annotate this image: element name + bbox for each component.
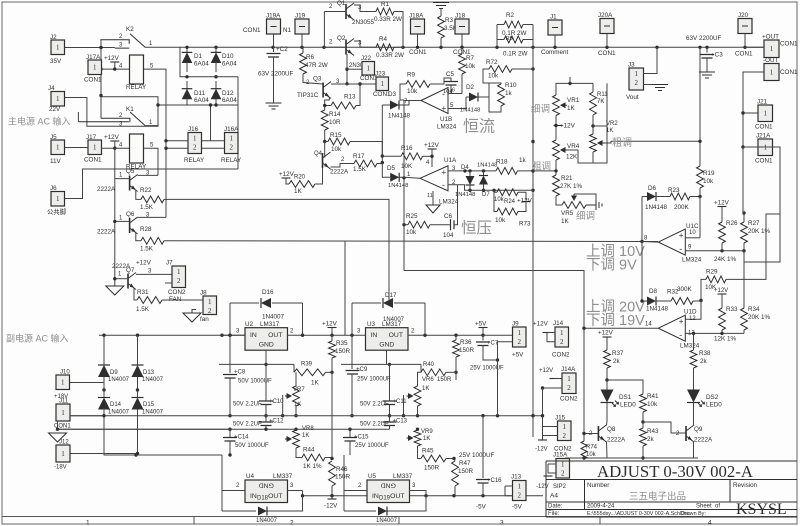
svg-text:R10: R10 bbox=[505, 82, 517, 89]
svg-text:TIP31C: TIP31C bbox=[297, 92, 319, 99]
svg-text:R13: R13 bbox=[344, 94, 356, 101]
wire J21 bbox=[743, 112, 758, 114]
LED DS2 bbox=[687, 390, 700, 403]
wire R41 to Q9 base bbox=[643, 422, 686, 433]
ground R3 top bbox=[433, 3, 449, 9]
svg-text:恒流: 恒流 bbox=[463, 118, 495, 136]
svg-text:Drawn By:: Drawn By: bbox=[681, 511, 706, 517]
svg-text:1N4148: 1N4148 bbox=[388, 183, 408, 189]
wire x534 bottom bbox=[532, 436, 534, 438]
svg-text:DS2: DS2 bbox=[706, 394, 719, 401]
svg-text:1: 1 bbox=[56, 195, 60, 203]
wire u5 in rail bbox=[343, 455, 345, 491]
svg-text:+C16: +C16 bbox=[487, 478, 502, 484]
svg-text:R43: R43 bbox=[647, 428, 659, 435]
svg-text:J13: J13 bbox=[511, 474, 522, 481]
wire R36 bbox=[455, 335, 457, 340]
capacitor C8 bbox=[229, 335, 231, 373]
wire rail to aux bridge bbox=[103, 408, 105, 416]
svg-text:2: 2 bbox=[230, 143, 234, 151]
wires R2 R5 parallel bbox=[497, 24, 504, 26]
svg-text:R17: R17 bbox=[353, 153, 365, 160]
svg-text:+: + bbox=[679, 231, 684, 240]
svg-text:1: 1 bbox=[93, 144, 97, 152]
long wire constant-voltage feedback bbox=[164, 199, 389, 303]
svg-text:2: 2 bbox=[518, 491, 522, 499]
wire relay2 coil pin4 bbox=[101, 147, 130, 149]
svg-text:三五电子出品: 三五电子出品 bbox=[629, 491, 686, 503]
svg-text:150R: 150R bbox=[335, 474, 351, 481]
wire -OUT bbox=[743, 72, 764, 148]
svg-text:R9: R9 bbox=[407, 72, 416, 79]
wire Q3 emitter bbox=[325, 97, 330, 110]
svg-text:R35: R35 bbox=[336, 340, 348, 347]
wire R41 bottom bbox=[642, 412, 644, 422]
wire R25 left bbox=[404, 224, 408, 226]
svg-text:LM317: LM317 bbox=[260, 321, 280, 328]
svg-text:E:\555dsy...\ADJUST 0-30V 002-: E:\555dsy...\ADJUST 0-30V 002-A.SchDoc bbox=[587, 511, 690, 517]
svg-text:1: 1 bbox=[93, 64, 97, 72]
svg-text:OUT: OUT bbox=[268, 332, 282, 339]
svg-text:2222A: 2222A bbox=[330, 169, 349, 176]
relay RELAY1 coil bbox=[130, 55, 144, 84]
resistor R31 bbox=[134, 288, 137, 301]
wire U3 gnd bbox=[386, 350, 388, 364]
svg-text:2k: 2k bbox=[647, 436, 655, 443]
svg-text:IN: IN bbox=[372, 493, 379, 500]
svg-text:+12V: +12V bbox=[714, 288, 728, 294]
aux bridge bottom wires bbox=[104, 416, 136, 455]
wire R23 right bbox=[690, 196, 700, 198]
svg-text:RELAY: RELAY bbox=[126, 84, 147, 91]
svg-text:+C10: +C10 bbox=[269, 399, 284, 405]
svg-text:Sheet of: Sheet of bbox=[696, 504, 720, 510]
resistor R74 bbox=[583, 434, 585, 442]
svg-text:GND: GND bbox=[259, 342, 274, 349]
svg-text:D8: D8 bbox=[649, 288, 658, 295]
wire R13 ends bbox=[325, 105, 331, 107]
svg-text:R72: R72 bbox=[486, 59, 498, 66]
svg-text:Q5: Q5 bbox=[126, 168, 135, 175]
svg-text:D7: D7 bbox=[482, 192, 490, 198]
wire R33 bottom bbox=[721, 330, 723, 333]
svg-text:Comment: Comment bbox=[541, 49, 569, 56]
rail gnd aux bbox=[58, 428, 390, 430]
ground C2 bbox=[266, 103, 282, 109]
capacitor C15 bbox=[343, 438, 357, 442]
wire U1A output bbox=[404, 177, 420, 178]
svg-text:35V: 35V bbox=[50, 58, 62, 65]
wire D6 anode bbox=[641, 197, 643, 242]
svg-text:R31: R31 bbox=[137, 289, 149, 296]
svg-text:R38: R38 bbox=[699, 350, 711, 357]
wires J16 pins bbox=[166, 140, 188, 142]
wire J7 pin2 bbox=[165, 282, 172, 284]
LED DS1 bbox=[601, 390, 614, 403]
svg-text:VR2: VR2 bbox=[606, 121, 618, 127]
wire R31 to J8 bbox=[162, 299, 203, 301]
wire R9 left feedback bbox=[400, 84, 406, 100]
svg-text:2: 2 bbox=[177, 277, 181, 285]
wire R32 right bbox=[693, 300, 701, 302]
svg-text:150R: 150R bbox=[459, 347, 475, 354]
svg-text:D14: D14 bbox=[110, 402, 122, 408]
svg-text:27K 1%: 27K 1% bbox=[560, 183, 582, 190]
svg-text:R21: R21 bbox=[561, 175, 573, 182]
potentiometer VR7 bbox=[295, 372, 297, 386]
wire VR9 to R45 bbox=[418, 446, 422, 459]
svg-text:粗调: 粗调 bbox=[612, 137, 632, 149]
svg-text:LM324: LM324 bbox=[437, 124, 457, 131]
svg-text:-12V: -12V bbox=[536, 484, 549, 490]
wire R4 right bbox=[394, 46, 403, 48]
wires C5 bbox=[430, 78, 451, 84]
svg-text:10k: 10k bbox=[407, 88, 418, 95]
wire Q5 collector to relay bbox=[138, 174, 158, 176]
ground VR5 bbox=[586, 200, 602, 210]
diode D9 bbox=[103, 335, 105, 365]
svg-text:+C3: +C3 bbox=[711, 52, 723, 59]
svg-text:1K: 1K bbox=[423, 436, 430, 442]
svg-text:2N3055: 2N3055 bbox=[352, 19, 375, 26]
resistor R7 bbox=[461, 47, 463, 54]
wire J20A stub bbox=[606, 34, 608, 48]
svg-text:R15: R15 bbox=[330, 132, 342, 139]
ground J3 bbox=[652, 85, 668, 91]
svg-text:ADJUST 0-30V 002-A: ADJUST 0-30V 002-A bbox=[597, 462, 753, 481]
svg-text:+12V: +12V bbox=[424, 142, 440, 149]
svg-text:12K: 12K bbox=[566, 154, 578, 161]
wire R16 ends bbox=[382, 155, 401, 157]
wire Q7 collector to J7 bbox=[136, 273, 172, 275]
svg-text:6A04: 6A04 bbox=[222, 61, 237, 68]
svg-text:2: 2 bbox=[561, 469, 565, 477]
svg-text:20K 1%: 20K 1% bbox=[748, 228, 770, 235]
svg-text:CON2: CON2 bbox=[552, 352, 570, 359]
wire VR4 wiper bbox=[567, 150, 593, 163]
svg-text:2: 2 bbox=[193, 143, 197, 151]
svg-text:1K: 1K bbox=[294, 402, 301, 408]
svg-text:1N4007: 1N4007 bbox=[256, 518, 278, 524]
svg-text:CON1: CON1 bbox=[409, 49, 427, 56]
wire J4 routing loop bbox=[65, 97, 159, 127]
svg-text:LM324: LM324 bbox=[439, 199, 459, 206]
wire feed U3 in bbox=[344, 242, 346, 336]
wire R26 bottom bbox=[721, 243, 723, 251]
wires R29 bbox=[701, 279, 706, 300]
wire U1D output bbox=[584, 327, 658, 329]
wire Q1 base rail bbox=[324, 11, 346, 13]
wire Q2 emitter rail bbox=[346, 54, 348, 84]
wire R44 right bbox=[325, 457, 332, 459]
svg-text:2222A: 2222A bbox=[694, 437, 713, 444]
svg-text:1.5K: 1.5K bbox=[140, 204, 154, 211]
svg-text:-: - bbox=[679, 330, 682, 340]
ground J11 bbox=[57, 421, 59, 429]
svg-text:150R: 150R bbox=[437, 377, 452, 383]
rail minus5 bottom bbox=[303, 495, 544, 497]
emitter ground rail bbox=[565, 457, 698, 459]
wire U1B pin5 bbox=[448, 97, 466, 109]
svg-text:U1D: U1D bbox=[684, 309, 697, 316]
svg-text:12K 1%: 12K 1% bbox=[714, 336, 736, 343]
svg-text:Q2: Q2 bbox=[337, 35, 346, 42]
svg-text:R40: R40 bbox=[423, 362, 435, 368]
wire R19 column bbox=[699, 47, 701, 166]
svg-text:1N4007: 1N4007 bbox=[383, 317, 405, 323]
wire J11 ground rail bbox=[58, 428, 231, 430]
potentiometer VR8 bbox=[295, 428, 297, 431]
potentiometer VR9 bbox=[417, 428, 419, 431]
svg-text:R73: R73 bbox=[519, 221, 531, 228]
svg-text:2: 2 bbox=[560, 338, 564, 346]
wires R27 bbox=[743, 213, 745, 222]
svg-text:VR5: VR5 bbox=[561, 210, 574, 217]
svg-text:1N4148: 1N4148 bbox=[645, 204, 668, 211]
svg-text:J14A: J14A bbox=[561, 366, 576, 373]
svg-text:6A04: 6A04 bbox=[222, 97, 237, 104]
svg-text:2k: 2k bbox=[613, 358, 621, 365]
wire J1 stub bbox=[554, 35, 556, 47]
wire VR6 bottom bbox=[417, 406, 419, 416]
ground flag J8 bbox=[192, 310, 196, 314]
wires D17 loop bbox=[351, 303, 353, 335]
svg-text:R3: R3 bbox=[445, 17, 454, 24]
wire J18 stub bbox=[461, 34, 463, 47]
svg-text:4: 4 bbox=[708, 520, 712, 526]
svg-text:LM337: LM337 bbox=[393, 473, 413, 480]
svg-text:1K: 1K bbox=[422, 386, 429, 392]
svg-text:下调 19V: 下调 19V bbox=[586, 312, 645, 329]
vertical R36-R45 net bbox=[455, 372, 457, 380]
svg-text:1N4007: 1N4007 bbox=[142, 410, 164, 416]
svg-text:R37: R37 bbox=[612, 350, 624, 357]
VR1 top rail bbox=[556, 83, 593, 95]
svg-text:2: 2 bbox=[567, 384, 571, 392]
wire J11 rail bbox=[70, 415, 104, 417]
wire Q8 base bbox=[584, 433, 598, 435]
capacitor C16 bbox=[482, 416, 484, 478]
svg-text:63V 2200UF: 63V 2200UF bbox=[686, 35, 722, 42]
wire J20 stub bbox=[744, 34, 746, 48]
svg-text:DS1: DS1 bbox=[619, 394, 632, 401]
svg-text:6A04: 6A04 bbox=[194, 97, 209, 104]
svg-text:10R: 10R bbox=[329, 119, 341, 126]
svg-text:D18: D18 bbox=[257, 496, 269, 502]
wire U1B pin6 bbox=[448, 93, 462, 95]
wire R43 bbox=[642, 422, 644, 428]
svg-text:+C11: +C11 bbox=[393, 399, 408, 405]
wire Q6 collector bbox=[138, 216, 166, 218]
svg-text:1N4007: 1N4007 bbox=[108, 377, 130, 383]
svg-text:R47: R47 bbox=[459, 460, 471, 467]
svg-text:1N4148: 1N4148 bbox=[455, 192, 475, 198]
svg-text:1K: 1K bbox=[311, 380, 320, 387]
svg-text:R16: R16 bbox=[401, 145, 413, 152]
svg-text:+5V: +5V bbox=[512, 352, 524, 359]
svg-text:2k: 2k bbox=[700, 358, 708, 365]
ground C3 bbox=[699, 72, 715, 78]
svg-text:+5V: +5V bbox=[475, 321, 487, 328]
svg-text:1K: 1K bbox=[567, 105, 576, 112]
resistor R28 bbox=[136, 232, 141, 241]
wire R27 top net bbox=[743, 251, 745, 262]
svg-text:1N4007: 1N4007 bbox=[142, 377, 164, 383]
svg-text:11V: 11V bbox=[50, 158, 62, 165]
svg-text:25V 1000UF: 25V 1000UF bbox=[357, 377, 391, 383]
wire R32 to U1D pin12 bbox=[685, 301, 701, 320]
svg-text:47R 2W: 47R 2W bbox=[305, 62, 328, 69]
resistor R14 bbox=[321, 110, 328, 130]
svg-text:1.5K: 1.5K bbox=[136, 306, 150, 313]
vertical minus12 to J15 bbox=[542, 388, 544, 440]
svg-text:R26: R26 bbox=[726, 220, 738, 227]
bridge bottom rail bbox=[158, 104, 238, 106]
wire J21A bbox=[743, 146, 758, 148]
svg-text:R18: R18 bbox=[496, 159, 508, 166]
svg-text:1K: 1K bbox=[302, 433, 309, 439]
wire U1C output bbox=[642, 241, 658, 244]
wire J18A stub bbox=[417, 34, 419, 47]
svg-text:R36: R36 bbox=[460, 339, 472, 346]
svg-text:-: - bbox=[442, 89, 445, 99]
svg-text:R45: R45 bbox=[422, 448, 434, 455]
wire R38 to DS2 bbox=[693, 368, 695, 391]
svg-text:+: + bbox=[679, 317, 684, 326]
wire bridge bottom to K1 bbox=[157, 105, 159, 126]
svg-text:150R: 150R bbox=[458, 468, 474, 475]
svg-text:10k: 10k bbox=[331, 146, 342, 153]
svg-text:Q8: Q8 bbox=[607, 426, 616, 433]
svg-text:20K 1%: 20K 1% bbox=[748, 314, 770, 321]
svg-text:14: 14 bbox=[645, 322, 652, 328]
svg-text:U1A: U1A bbox=[444, 157, 457, 164]
svg-text:+12V: +12V bbox=[714, 200, 730, 207]
svg-text:10k: 10k bbox=[465, 63, 476, 70]
potentiometer VR4 bbox=[553, 140, 560, 160]
svg-text:1: 1 bbox=[61, 450, 65, 458]
diode D13 bbox=[137, 335, 139, 365]
svg-text:1: 1 bbox=[86, 520, 90, 526]
svg-text:-: - bbox=[442, 180, 445, 190]
resistor R15 bbox=[328, 138, 350, 145]
svg-text:10k: 10k bbox=[703, 178, 714, 185]
svg-text:1: 1 bbox=[563, 423, 567, 431]
svg-text:粗调: 粗调 bbox=[532, 161, 551, 173]
vertical R35 to R44 bbox=[331, 372, 333, 458]
wire K1 pin1 bbox=[145, 125, 158, 127]
resistor R6 bbox=[300, 53, 307, 74]
svg-text:6: 6 bbox=[452, 88, 455, 94]
svg-text:RELAY: RELAY bbox=[184, 157, 205, 164]
svg-text:Q3: Q3 bbox=[313, 76, 322, 83]
svg-text:1K 1%: 1K 1% bbox=[303, 463, 322, 470]
rail to Q8 Q9 area bbox=[404, 271, 584, 434]
resistor R21 bbox=[555, 160, 557, 175]
svg-text:1: 1 bbox=[56, 44, 60, 52]
wire J16 riser to rail bbox=[210, 105, 212, 141]
svg-text:CON1: CON1 bbox=[755, 124, 773, 131]
svg-text:2222A: 2222A bbox=[97, 229, 116, 236]
svg-text:-12V: -12V bbox=[535, 447, 548, 453]
wire R72 left bbox=[483, 69, 489, 83]
svg-text:2222A: 2222A bbox=[112, 263, 131, 270]
wires J13 bbox=[505, 485, 513, 487]
svg-text:细调: 细调 bbox=[576, 210, 595, 222]
svg-text:7K: 7K bbox=[597, 99, 604, 105]
wire J5 to J17 bbox=[65, 147, 89, 149]
svg-text:CON2: CON2 bbox=[560, 396, 578, 403]
wire K2 pin1 to bus bbox=[145, 47, 187, 77]
svg-text:GND: GND bbox=[379, 342, 394, 349]
wire R7 bottom bbox=[461, 74, 463, 94]
svg-text:VR9: VR9 bbox=[421, 429, 433, 435]
wire J22 pin bbox=[347, 68, 362, 70]
wire Q2 collector bbox=[354, 41, 376, 47]
right edge vertical j21a net bbox=[744, 165, 780, 262]
svg-text:Q9: Q9 bbox=[694, 426, 703, 433]
wire R39 ends bbox=[293, 364, 295, 372]
svg-text:1N4148: 1N4148 bbox=[646, 306, 669, 313]
bridge diode D11 bbox=[186, 81, 188, 90]
wire R6 to Q3 base bbox=[303, 74, 323, 84]
gnd line U2 module bbox=[219, 363, 294, 365]
potentiometer VR6 bbox=[418, 372, 422, 386]
aux bridge top rail bbox=[99, 334, 245, 336]
wire VR7 wiper bbox=[282, 395, 284, 416]
svg-text:0.33R 2W: 0.33R 2W bbox=[374, 16, 402, 23]
u4 in from rail bbox=[221, 455, 223, 511]
wires J3 bbox=[644, 47, 658, 73]
svg-text:1: 1 bbox=[61, 409, 65, 417]
svg-text:CON1: CON1 bbox=[243, 27, 261, 34]
svg-text:CON1: CON1 bbox=[755, 158, 773, 165]
svg-text:1k: 1k bbox=[519, 157, 527, 164]
bridge diode D12 bbox=[215, 81, 217, 90]
wire K1 feed bbox=[100, 97, 102, 118]
svg-text:1N4148: 1N4148 bbox=[460, 108, 480, 114]
svg-text:Q6: Q6 bbox=[126, 211, 135, 218]
svg-text:C6: C6 bbox=[444, 213, 453, 220]
svg-text:R33: R33 bbox=[726, 306, 738, 313]
wires U4 pins bbox=[222, 490, 245, 492]
svg-text:CON2: CON2 bbox=[168, 289, 186, 296]
svg-text:Number: Number bbox=[587, 482, 609, 489]
wire U1B output bbox=[404, 100, 421, 102]
wire relay2 pin5 bbox=[144, 148, 159, 175]
svg-text:2222A: 2222A bbox=[97, 186, 116, 193]
wire R35 bottom bbox=[331, 358, 333, 372]
wires J15A bbox=[548, 463, 556, 465]
wires J14 bbox=[547, 332, 555, 334]
wire bridge mid to vertical bbox=[237, 77, 239, 169]
svg-text:10k: 10k bbox=[647, 401, 658, 408]
wire Q3 collector bbox=[331, 83, 376, 85]
diode D14 bbox=[102, 388, 105, 391]
wire U1D pin13 bbox=[685, 332, 744, 334]
svg-text:+12V: +12V bbox=[598, 330, 614, 337]
svg-text:1.5K: 1.5K bbox=[353, 166, 367, 173]
svg-text:50V 1000UF: 50V 1000UF bbox=[235, 443, 269, 449]
wire J9 pin2 bbox=[498, 342, 513, 416]
svg-text:1.5K: 1.5K bbox=[140, 246, 154, 253]
capacitor C7 bbox=[482, 335, 484, 340]
svg-text:24K 1%: 24K 1% bbox=[714, 256, 736, 263]
svg-text:25V 1000UF: 25V 1000UF bbox=[470, 366, 504, 372]
svg-text:1: 1 bbox=[518, 329, 522, 337]
svg-text:R28: R28 bbox=[140, 226, 152, 233]
svg-text:D19: D19 bbox=[379, 496, 391, 502]
